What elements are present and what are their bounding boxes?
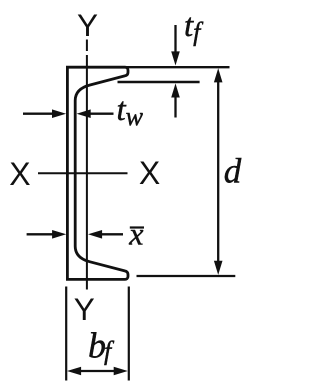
svg-text:X: X bbox=[139, 155, 160, 191]
svg-text:x: x bbox=[128, 216, 143, 252]
svg-text:bf: bf bbox=[88, 326, 115, 366]
d bottom extension line bbox=[137, 275, 236, 277]
tf up arrow bbox=[171, 83, 180, 117]
svg-text:tw: tw bbox=[117, 92, 144, 131]
svg-text:Y: Y bbox=[77, 7, 98, 43]
tw right arrow bbox=[77, 109, 114, 118]
svg-text:d: d bbox=[224, 152, 242, 191]
svg-text:X: X bbox=[9, 156, 30, 192]
X axis centerline (horizontal) bbox=[38, 172, 128, 174]
tw left arrow bbox=[23, 109, 66, 118]
top edge extension line (d/tf upper reference) bbox=[125, 66, 230, 68]
xbar left arrow bbox=[27, 230, 67, 239]
bf double arrow bbox=[67, 367, 128, 376]
channel section outline bbox=[67, 67, 128, 279]
xbar right arrow bbox=[88, 230, 123, 239]
tf lower extension line bbox=[118, 81, 200, 83]
bf left extension line bbox=[65, 287, 67, 381]
svg-text:Y: Y bbox=[74, 291, 95, 327]
d dimension line with arrows bbox=[214, 68, 223, 275]
tf down arrow bbox=[171, 25, 180, 66]
bf right extension line bbox=[128, 287, 130, 381]
svg-text:tf: tf bbox=[184, 8, 204, 47]
Y axis centerline (vertical) bbox=[86, 40, 88, 290]
